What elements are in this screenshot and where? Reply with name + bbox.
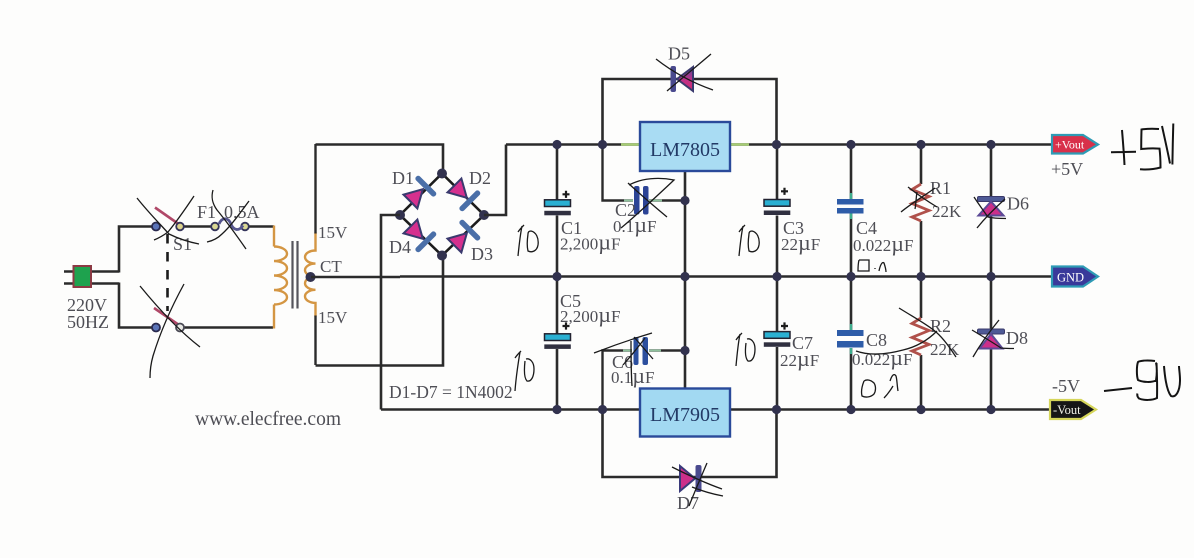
regulator U2 LM7905 <box>640 389 730 437</box>
node negative rail / R2 <box>916 405 925 414</box>
svg-text:C4: C4 <box>856 218 877 238</box>
diode D5 <box>671 66 694 92</box>
svg-text:R1: R1 <box>930 178 951 198</box>
node gnd rail / C4 <box>846 272 855 281</box>
node positive rail / C1 <box>552 140 561 149</box>
annotation X over D7 <box>672 463 723 506</box>
svg-text:D5: D5 <box>668 44 690 64</box>
wire: C2 input branch <box>603 145 634 201</box>
capacitor C2 <box>634 186 649 215</box>
transformer T1 primary lead top <box>273 226 275 247</box>
node gnd rail / D6 <box>986 272 995 281</box>
wire: S1a to fuse F1 <box>184 225 212 228</box>
annotation X over C6 <box>594 333 653 386</box>
wire: bridge - output down to negative rail <box>381 215 400 410</box>
svg-text:CT: CT <box>320 257 342 276</box>
node bridge top <box>437 169 447 179</box>
node C6/LM7905 gnd junction <box>680 346 689 355</box>
terminal +Vout <box>1052 135 1098 154</box>
capacitor C3 <box>764 145 791 277</box>
svg-text:D3: D3 <box>471 244 493 264</box>
wire: LM7805 ground pin <box>684 171 687 277</box>
svg-text:D6: D6 <box>1007 194 1029 214</box>
annotation doodle 1D near C1 <box>518 225 538 256</box>
annotation doodle 1D near C5 <box>515 351 534 391</box>
annotation X over R2 <box>856 308 956 357</box>
wire: bridge + output up to positive rail <box>484 145 506 216</box>
node gnd rail / C1 <box>552 272 561 281</box>
node negative rail / C8 <box>846 405 855 414</box>
diode D3 <box>445 219 481 255</box>
svg-text:50HZ: 50HZ <box>67 312 109 332</box>
wire: C6 lead green left <box>623 350 632 352</box>
transformer T1 primary winding <box>274 247 287 305</box>
wire: secondary bottom to bridge AC bottom <box>316 256 444 366</box>
node bridge right <box>479 210 489 220</box>
capacitor C5 <box>544 277 571 410</box>
wire: C2 lead green right <box>649 200 662 202</box>
switch S1 dashed link <box>166 234 169 311</box>
wire: C6 input branch <box>603 351 633 410</box>
annotation X over D6 <box>974 197 1006 228</box>
transformer T1 core <box>293 241 298 309</box>
transformer T1 secondary winding <box>305 233 316 317</box>
node negative rail / C6 branch <box>598 405 607 414</box>
node positive rail / LM7805 out <box>772 140 781 149</box>
transformer T1 primary lead bottom <box>273 305 275 329</box>
node negative rail / LM7905 out <box>772 405 781 414</box>
node CT tap <box>306 272 316 282</box>
diode D1 <box>401 175 437 211</box>
wire: LM7905 ground pin <box>684 277 687 390</box>
fuse F1 <box>211 219 249 231</box>
svg-text:D1-D7 = 1N4002: D1-D7 = 1N4002 <box>389 382 513 402</box>
svg-text:22K: 22K <box>932 202 962 221</box>
node negative rail / D8 <box>986 405 995 414</box>
node gnd rail / C3 <box>772 272 781 281</box>
svg-text:GND: GND <box>1057 271 1084 285</box>
annotation X over D5 <box>656 54 713 91</box>
switch S1 pole a <box>152 208 184 231</box>
wire: ground rail <box>311 275 1053 278</box>
svg-text:D8: D8 <box>1006 328 1028 348</box>
svg-text:LM7905: LM7905 <box>650 404 720 426</box>
node C2/LM7805 gnd junction <box>680 196 689 205</box>
svg-text:C8: C8 <box>866 330 887 350</box>
wire: S1b to transformer primary bottom <box>184 326 273 329</box>
regulator U1 LM7805 <box>621 122 749 171</box>
zener D8 <box>978 277 1005 410</box>
wire: C6 to LM7905 gnd node <box>649 349 685 351</box>
svg-text:0.5A: 0.5A <box>224 202 260 222</box>
svg-text:www.elecfree.com: www.elecfree.com <box>195 409 341 430</box>
capacitor C7 <box>764 277 791 410</box>
diode D4 <box>401 217 437 253</box>
resistor R2 <box>912 277 929 410</box>
node positive rail / R1 <box>916 140 925 149</box>
wire: plug bottom prong to switch S1b <box>119 283 152 328</box>
wire: D5 bypass loop <box>603 79 777 145</box>
node positive rail / C4 <box>846 140 855 149</box>
annotation doodle square dot near C4 <box>858 260 886 272</box>
node gnd rail / regulators <box>680 272 689 281</box>
plug P1 (220V mains) <box>64 266 119 287</box>
resistor R1 <box>912 145 929 277</box>
bridge rectifier frame <box>400 174 484 256</box>
annotation handwritten -9V <box>1104 360 1180 399</box>
switch S1 pole b <box>152 308 184 332</box>
node negative rail / C5 <box>552 405 561 414</box>
annotation doodle 1D near C7 <box>736 333 755 366</box>
annotation X over S1b <box>140 284 200 378</box>
wire: C2 lead green left <box>624 200 633 202</box>
svg-text:D2: D2 <box>469 168 491 188</box>
annotation X over F1 <box>207 190 249 249</box>
svg-text:+5V: +5V <box>1051 159 1083 179</box>
transformer T1 secondary lead top <box>314 144 316 234</box>
node gnd rail / R1 <box>916 272 925 281</box>
diode D7 <box>680 465 702 492</box>
svg-text:D4: D4 <box>389 237 411 257</box>
svg-text:-5V: -5V <box>1052 376 1080 396</box>
terminal -Vout <box>1050 400 1096 419</box>
wire: positive rail <box>506 143 1053 146</box>
wire: C2 to LM7805 gnd node <box>649 199 685 201</box>
svg-text:LM7805: LM7805 <box>650 139 720 161</box>
annotation X over C2 <box>621 178 674 228</box>
wire: D7 bypass loop <box>603 410 777 478</box>
wire: secondary top to bridge AC top <box>316 145 444 174</box>
annotation doodle 1D near C3 <box>739 225 759 256</box>
annotation X over R1 <box>901 187 937 212</box>
capacitor C4 <box>837 145 864 277</box>
svg-text:D1: D1 <box>392 168 414 188</box>
svg-text:+Vout: +Vout <box>1055 138 1085 152</box>
svg-text:-Vout: -Vout <box>1053 403 1081 417</box>
wire: C6 lead green right <box>649 350 661 352</box>
annotation doodle square mark near C8 <box>862 375 898 398</box>
annotation X over S1a <box>137 196 199 244</box>
capacitor C6 <box>634 337 649 365</box>
svg-text:F1: F1 <box>197 202 216 222</box>
annotation X over D8 <box>972 320 1014 357</box>
zener D6 <box>978 145 1005 277</box>
diode D2 <box>445 176 481 212</box>
capacitor C8 <box>837 277 864 410</box>
svg-text:D7: D7 <box>677 493 699 513</box>
svg-text:15V: 15V <box>318 223 348 242</box>
svg-text:15V: 15V <box>318 308 348 327</box>
svg-text:R2: R2 <box>930 316 951 336</box>
annotation handwritten +5V <box>1111 124 1173 170</box>
wire: negative rail <box>381 408 1051 411</box>
transformer T1 secondary lead bottom <box>314 316 316 366</box>
wire: fuse F1 to transformer primary top <box>248 225 274 228</box>
svg-text:22µF: 22µF <box>780 346 819 371</box>
node positive rail / C2 branch <box>598 140 607 149</box>
node bridge bottom <box>437 251 447 261</box>
wire: plug top prong to switch S1a <box>119 227 152 273</box>
capacitor C1 <box>544 145 571 277</box>
node positive rail / D6 <box>986 140 995 149</box>
terminal GND <box>1052 267 1098 287</box>
node bridge left <box>395 210 405 220</box>
